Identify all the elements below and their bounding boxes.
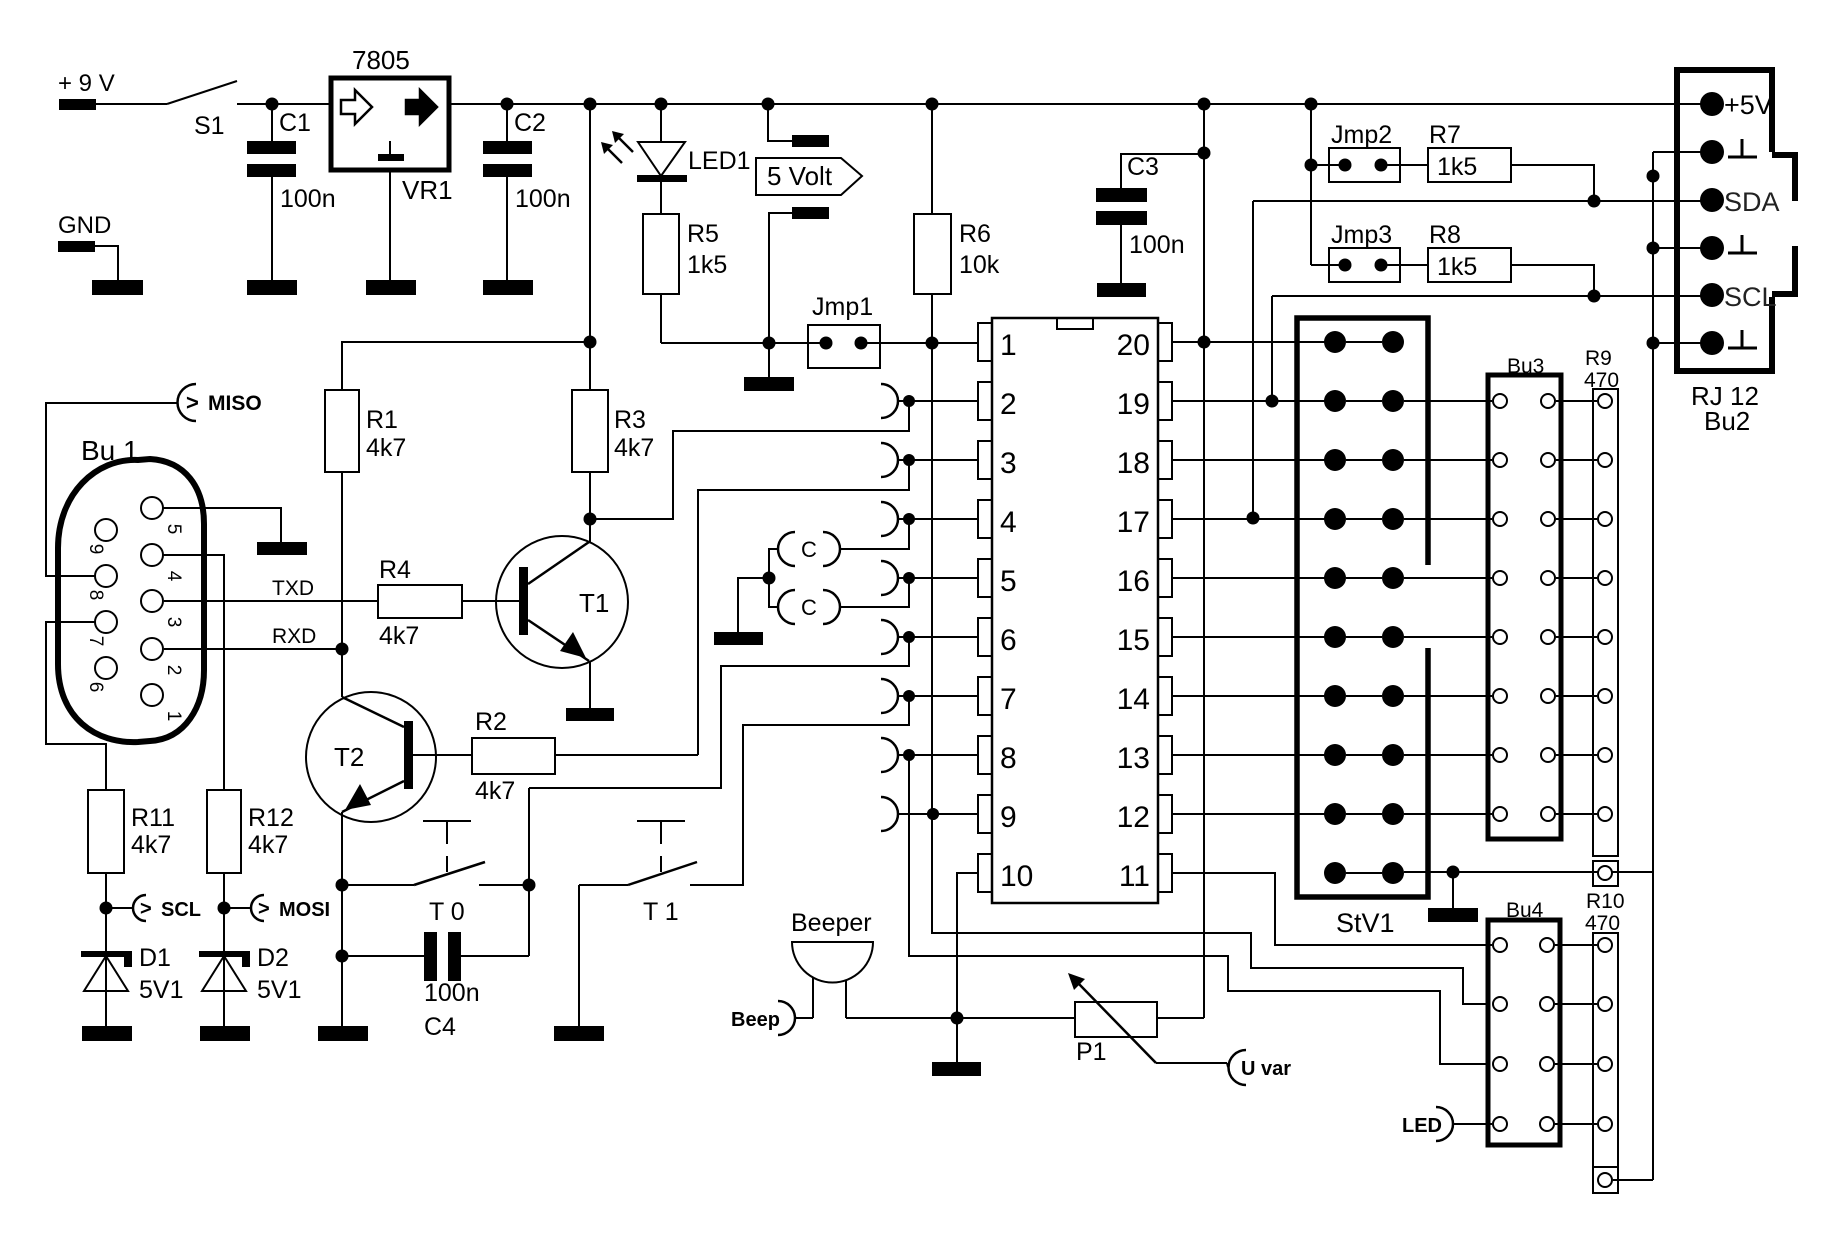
wire <box>578 885 580 1026</box>
svg-text:17: 17 <box>1117 506 1150 539</box>
resistor network R10 470 <box>1585 861 1625 1193</box>
pin SDA <box>1700 187 1780 217</box>
svg-text:9: 9 <box>1000 801 1017 834</box>
svg-text:4k7: 4k7 <box>366 434 406 462</box>
wire <box>1613 1179 1653 1181</box>
net label GND <box>58 212 111 239</box>
stub U var <box>1229 1050 1292 1085</box>
svg-text:R2: R2 <box>475 708 507 736</box>
node C common <box>763 572 776 585</box>
wire <box>1598 997 1612 1011</box>
terminal 5Volt lower <box>792 207 829 219</box>
wire pin9/reset net <box>932 343 1488 1004</box>
wire <box>1598 1117 1612 1131</box>
svg-text:Bu4: Bu4 <box>1506 899 1544 922</box>
wire <box>931 294 933 343</box>
resistor R1 <box>325 390 406 472</box>
ground <box>366 280 416 295</box>
wire +5V column <box>1203 104 1205 1018</box>
wire pin17 row <box>1173 518 1335 520</box>
wire pin4 net <box>839 519 909 549</box>
wire <box>1311 164 1345 166</box>
svg-text:11: 11 <box>1119 860 1150 893</box>
svg-text:10: 10 <box>1000 860 1033 893</box>
node bus2 <box>1647 242 1660 255</box>
node rail-R6 <box>926 98 939 111</box>
capacitor C3 <box>1096 153 1185 259</box>
capacitor C4 <box>424 932 480 1041</box>
wire <box>1556 636 1597 638</box>
pin 7 stub <box>881 679 978 713</box>
wire <box>341 472 343 649</box>
svg-text:100n: 100n <box>515 185 571 213</box>
wire <box>1556 400 1597 402</box>
regulator VR1 7805 <box>331 45 453 205</box>
svg-text:D1: D1 <box>139 944 171 972</box>
svg-text:LED: LED <box>1402 1115 1442 1137</box>
svg-text:R3: R3 <box>614 406 646 434</box>
wire <box>506 177 508 280</box>
svg-text:470: 470 <box>1585 912 1620 935</box>
svg-text:R4: R4 <box>379 556 411 584</box>
wire <box>1271 296 1273 401</box>
wire pin11 net <box>1173 873 1492 945</box>
svg-text:StV1: StV1 <box>1336 908 1395 938</box>
pin 2 stub <box>881 384 978 418</box>
wire pin2 net <box>590 402 909 519</box>
node <box>336 950 349 963</box>
resistor R11 <box>88 790 175 873</box>
wire <box>528 788 530 956</box>
wire <box>931 104 933 214</box>
svg-text:7: 7 <box>1000 683 1017 716</box>
wire <box>1227 1063 1228 1067</box>
wire <box>1173 341 1335 343</box>
wire <box>579 884 628 886</box>
node MOSI stub <box>218 902 231 915</box>
node SCL stub <box>100 902 113 915</box>
svg-text:>: > <box>186 390 199 415</box>
svg-text:R9: R9 <box>1585 347 1612 370</box>
wire <box>1598 1057 1612 1071</box>
LED LED1 <box>601 131 751 182</box>
IC U1 20-pin <box>978 318 1172 903</box>
wire <box>1556 518 1597 520</box>
svg-text:P1: P1 <box>1076 1038 1107 1066</box>
wire pin19 row <box>1173 400 1335 402</box>
resistor R5 <box>643 214 727 294</box>
node C1 top <box>266 98 279 111</box>
wire TXD <box>164 577 378 601</box>
wire <box>1556 459 1597 461</box>
svg-text:5V1: 5V1 <box>139 976 183 1004</box>
wire <box>1598 938 1612 952</box>
svg-text:C: C <box>801 537 817 562</box>
svg-text:Jmp3: Jmp3 <box>1331 221 1392 249</box>
wire <box>342 955 424 957</box>
node rail-Jmp2 <box>1305 98 1318 111</box>
ground <box>1428 908 1478 922</box>
wire <box>1653 342 1712 344</box>
resistor R8 <box>1428 221 1511 282</box>
wire <box>738 578 769 632</box>
stub SCL <box>106 895 201 921</box>
ground <box>318 1026 368 1041</box>
wire pin14 row <box>1173 695 1335 697</box>
wire <box>1555 1003 1597 1005</box>
wire <box>223 956 225 1026</box>
svg-text:SCL: SCL <box>1724 282 1777 312</box>
node pin9 <box>927 808 939 820</box>
resistor R12 <box>207 790 294 873</box>
pin gnd2 <box>1700 235 1757 260</box>
svg-text:1k5: 1k5 <box>1437 253 1477 281</box>
node SCL-pin19 <box>1266 395 1279 408</box>
svg-text:4k7: 4k7 <box>379 622 419 650</box>
ground <box>82 1026 132 1041</box>
node RXD <box>336 643 349 656</box>
node R1/R3 split <box>584 336 597 349</box>
svg-text:1k5: 1k5 <box>1437 153 1477 181</box>
resistor R4 <box>378 556 462 650</box>
wire <box>1404 577 1492 579</box>
pin gnd1 <box>1700 139 1757 164</box>
switch S1 <box>167 81 237 140</box>
wire pin1 lead <box>880 342 978 344</box>
wire <box>1157 1017 1204 1019</box>
node T1 collector <box>584 513 597 526</box>
pin 8 stub <box>881 738 978 772</box>
svg-text:3: 3 <box>163 617 184 628</box>
svg-text:8: 8 <box>1000 742 1017 775</box>
wire <box>462 600 519 602</box>
svg-text:4k7: 4k7 <box>248 831 288 859</box>
svg-text:18: 18 <box>1117 447 1150 480</box>
connector C upper <box>778 532 840 566</box>
svg-text:1k5: 1k5 <box>687 251 727 279</box>
ground <box>92 280 143 295</box>
svg-text:6: 6 <box>1000 624 1017 657</box>
wire <box>341 649 343 697</box>
node <box>523 879 536 892</box>
wire <box>1310 104 1312 265</box>
wire ground bus <box>1652 152 1654 1180</box>
svg-text:20: 20 <box>1117 329 1150 362</box>
node SCL-R8 <box>1588 290 1601 303</box>
wire <box>1556 813 1597 815</box>
terminal 5Volt upper <box>792 135 829 147</box>
pin 4 stub <box>881 502 978 536</box>
wire <box>105 956 107 1026</box>
wire pin7-R11 <box>46 622 106 790</box>
wire <box>342 884 414 886</box>
svg-text:100n: 100n <box>280 185 336 213</box>
svg-text:5 Volt: 5 Volt <box>767 161 833 191</box>
wire pin6 net <box>529 637 909 788</box>
stub LED <box>1402 1107 1492 1141</box>
ground <box>932 1062 981 1076</box>
wire <box>1404 813 1492 815</box>
svg-text:R10: R10 <box>1586 890 1625 913</box>
wire SDA <box>1253 200 1712 202</box>
node rail-R3 <box>584 98 597 111</box>
resistor R7 <box>1428 121 1511 182</box>
svg-text:14: 14 <box>1117 683 1150 716</box>
switch T1 <box>628 821 697 926</box>
wire <box>1381 164 1428 166</box>
pin SCL <box>1700 282 1777 312</box>
stub Beep <box>731 1001 795 1035</box>
node pin20 tap <box>1198 336 1211 349</box>
node Jmp1 feed <box>763 337 776 350</box>
ground <box>1097 283 1146 297</box>
terminal <box>257 542 307 555</box>
svg-text:2: 2 <box>1000 388 1017 421</box>
wire pin3 net <box>698 460 909 755</box>
svg-text:3: 3 <box>1000 447 1017 480</box>
wire MISO-pin8 <box>46 403 178 576</box>
node beeper gnd <box>951 1012 964 1025</box>
node Jmp2 tap <box>1305 159 1318 172</box>
wire <box>1404 636 1492 638</box>
svg-text:16: 16 <box>1117 565 1150 598</box>
diode D1 5V1 <box>81 944 183 1004</box>
capacitor C1 <box>247 109 336 213</box>
svg-text:R5: R5 <box>687 220 719 248</box>
wire <box>846 1017 957 1019</box>
connector C lower <box>778 590 840 624</box>
node SDA-pin17 <box>1247 512 1260 525</box>
svg-text:MISO: MISO <box>208 392 262 415</box>
svg-text:S1: S1 <box>194 112 225 140</box>
svg-text:VR1: VR1 <box>402 175 453 205</box>
wire <box>1556 577 1597 579</box>
svg-text:Beep: Beep <box>731 1009 780 1031</box>
wire <box>660 294 662 343</box>
ground <box>714 632 763 645</box>
wire <box>1252 201 1254 518</box>
wire <box>1381 264 1428 266</box>
wire <box>1404 871 1653 873</box>
wire <box>589 472 591 519</box>
svg-text:T2: T2 <box>334 742 364 772</box>
wire pin4-R12 <box>163 555 224 790</box>
pin +5V <box>1700 90 1773 120</box>
resistor R3 <box>572 390 654 472</box>
svg-text:12: 12 <box>1117 801 1150 834</box>
stub MISO <box>178 384 262 421</box>
wire <box>1404 459 1492 461</box>
wire <box>96 103 167 105</box>
jumper Jmp2 <box>1329 121 1400 182</box>
wire <box>1404 400 1492 402</box>
wire <box>769 549 779 607</box>
wire <box>768 104 792 141</box>
wire SCL <box>1272 295 1712 297</box>
wire <box>1404 754 1492 756</box>
svg-text:5: 5 <box>1000 565 1017 598</box>
wire <box>506 104 508 141</box>
svg-text:R1: R1 <box>366 406 398 434</box>
svg-text:R8: R8 <box>1429 221 1461 249</box>
svg-text:7805: 7805 <box>352 45 410 75</box>
svg-text:C1: C1 <box>279 109 311 137</box>
svg-text:Bu3: Bu3 <box>1507 355 1544 378</box>
wire pin15 row <box>1173 636 1335 638</box>
wire <box>690 884 743 886</box>
wire <box>1653 247 1712 249</box>
wire <box>660 104 662 176</box>
wire <box>555 754 698 756</box>
node rail-5V <box>762 98 775 111</box>
Bu1 pins <box>85 497 184 721</box>
pin gnd3 <box>1700 330 1757 355</box>
switch T0 <box>414 821 485 926</box>
svg-text:4k7: 4k7 <box>475 777 515 805</box>
svg-text:Jmp1: Jmp1 <box>812 293 873 321</box>
transistor T2 <box>306 692 436 822</box>
svg-text:T 0: T 0 <box>429 898 465 926</box>
wire <box>1555 944 1597 946</box>
svg-text:5: 5 <box>163 524 184 535</box>
svg-text:R12: R12 <box>248 804 294 832</box>
svg-text:Jmp2: Jmp2 <box>1331 121 1392 149</box>
capacitor C2 <box>483 109 571 213</box>
node SDA-R7 <box>1588 195 1601 208</box>
node C3 tap <box>1198 147 1211 160</box>
wire <box>1404 695 1492 697</box>
node bus3 <box>1647 337 1660 350</box>
connector StV1 <box>1297 318 1428 938</box>
diode D2 5V1 <box>199 944 301 1004</box>
wire pin5 net <box>839 578 909 607</box>
wire <box>1555 1063 1597 1065</box>
svg-text:8: 8 <box>85 590 106 601</box>
node bus1 <box>1647 170 1660 183</box>
wire <box>1311 264 1345 266</box>
wire <box>1120 225 1122 283</box>
wire <box>1511 265 1594 296</box>
svg-text:R6: R6 <box>959 220 991 248</box>
wire <box>661 342 826 344</box>
wire <box>342 342 590 390</box>
ground <box>200 1026 250 1041</box>
wire <box>1121 154 1204 188</box>
wire <box>769 213 792 343</box>
wire <box>1452 872 1454 908</box>
wire <box>589 519 591 542</box>
wire <box>1653 151 1712 153</box>
node C2 top <box>501 98 514 111</box>
pin 9 stub <box>881 797 978 831</box>
wire <box>389 170 391 280</box>
svg-text:470: 470 <box>1584 369 1619 392</box>
wire pin5-gnd <box>163 508 281 542</box>
wire +5V rail main <box>237 103 1712 105</box>
svg-text:C4: C4 <box>424 1013 456 1041</box>
ground <box>483 280 533 295</box>
resistor network R9 470 <box>1584 347 1619 856</box>
svg-text:4k7: 4k7 <box>614 434 654 462</box>
node R6 bottom <box>926 337 939 350</box>
svg-text:R7: R7 <box>1429 121 1461 149</box>
wire <box>861 342 978 344</box>
terminal GND <box>58 241 95 252</box>
svg-text:SDA: SDA <box>1724 187 1780 217</box>
beeper <box>791 909 873 1018</box>
wire T2 emitter <box>341 812 343 1026</box>
connector RJ12 Bu2 outline <box>1677 70 1795 436</box>
wire <box>589 104 591 390</box>
wire <box>95 246 118 280</box>
svg-text:U var: U var <box>1241 1058 1291 1080</box>
wire <box>1511 165 1594 201</box>
svg-text:+ 9 V: + 9 V <box>58 70 115 97</box>
svg-text:TXD: TXD <box>272 577 314 600</box>
ground <box>566 708 614 721</box>
svg-text:Bu 1: Bu 1 <box>81 435 139 466</box>
wire <box>1156 1062 1227 1064</box>
svg-text:R11: R11 <box>131 804 175 832</box>
wire pin8 net <box>909 755 1488 1064</box>
node StV1 gnd <box>1447 866 1460 879</box>
wire <box>105 873 107 951</box>
resistor R2 <box>472 708 555 805</box>
svg-text:T1: T1 <box>579 588 609 618</box>
pin 5 stub <box>881 561 978 595</box>
potentiometer P1 <box>1068 973 1157 1066</box>
svg-text:1: 1 <box>1000 329 1017 362</box>
svg-text:4: 4 <box>1000 506 1017 539</box>
wire RXD <box>164 625 342 649</box>
wire <box>271 177 273 280</box>
wire <box>768 343 770 377</box>
wire <box>413 754 472 756</box>
wire <box>660 182 662 214</box>
svg-text:D2: D2 <box>257 944 289 972</box>
wire <box>957 1017 1075 1019</box>
wire <box>1556 695 1597 697</box>
svg-text:>: > <box>140 898 152 920</box>
wire pin12 row <box>1173 813 1335 815</box>
net label +9V <box>58 70 115 97</box>
svg-text:1: 1 <box>163 711 184 722</box>
wire <box>1556 754 1597 756</box>
wire pin18 row <box>1173 459 1335 461</box>
wire <box>271 104 273 141</box>
svg-text:T 1: T 1 <box>643 898 679 926</box>
wire <box>461 955 529 957</box>
svg-text:LED1: LED1 <box>688 147 751 175</box>
pin 6 stub <box>881 620 978 654</box>
wire <box>1404 518 1492 520</box>
stub MOSI <box>224 895 330 921</box>
svg-text:9: 9 <box>85 544 106 555</box>
connector Bu4 <box>1488 899 1560 1145</box>
svg-text:100n: 100n <box>1129 231 1185 259</box>
svg-text:4k7: 4k7 <box>131 831 171 859</box>
pin 3 stub <box>881 443 978 477</box>
svg-text:19: 19 <box>1117 388 1150 421</box>
wire <box>795 1017 813 1019</box>
svg-text:SCL: SCL <box>161 899 201 921</box>
connector Bu3 <box>1488 355 1561 839</box>
svg-text:4: 4 <box>163 571 184 582</box>
jumper Jmp3 <box>1329 221 1400 282</box>
svg-text:>: > <box>258 898 270 920</box>
resistor R6 <box>914 214 1000 294</box>
svg-text:+5V: +5V <box>1724 90 1773 120</box>
